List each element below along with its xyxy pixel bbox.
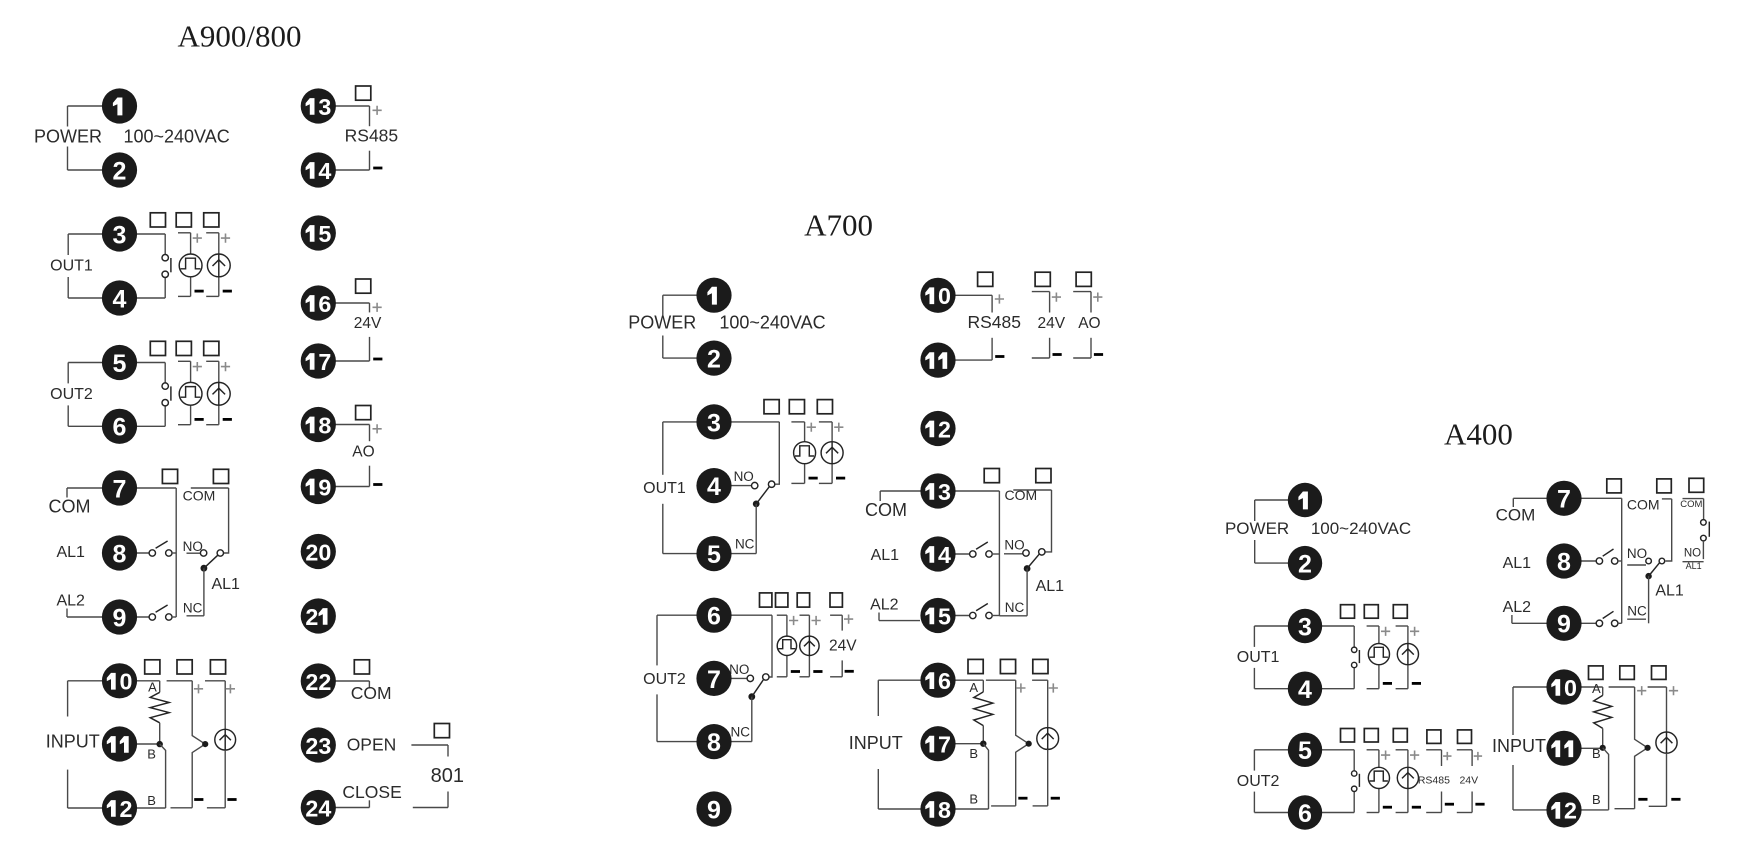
svg-text:B: B [1592,792,1601,807]
svg-text:B: B [969,746,978,761]
svg-text:A700: A700 [804,208,873,243]
svg-text:3: 3 [1298,613,1312,641]
svg-text:POWER: POWER [34,127,102,147]
svg-text:COM: COM [351,683,392,703]
svg-text:AL1: AL1 [1036,578,1065,595]
svg-text:7: 7 [1557,486,1571,514]
svg-text:3: 3 [113,221,127,249]
svg-text:7: 7 [318,349,331,375]
svg-text:3: 3 [318,94,331,120]
svg-text:7: 7 [938,732,951,758]
svg-text:3: 3 [707,409,721,437]
svg-text:5: 5 [707,541,721,569]
svg-text:7: 7 [113,475,127,503]
svg-text:COM: COM [865,500,907,520]
svg-text:9: 9 [707,796,721,824]
svg-text:5: 5 [318,221,331,247]
svg-text:AL1: AL1 [211,576,240,593]
svg-text:AL1: AL1 [1503,555,1532,572]
svg-text:INPUT: INPUT [1492,736,1546,756]
svg-text:OUT1: OUT1 [643,480,686,497]
svg-text:A: A [969,680,978,695]
svg-text:2: 2 [1298,551,1312,579]
svg-text:100~240VAC: 100~240VAC [1311,519,1411,538]
svg-text:9: 9 [1557,611,1571,639]
svg-text:NO: NO [1684,548,1701,560]
svg-text:A: A [1592,681,1601,696]
svg-text:COM: COM [49,497,91,517]
svg-text:24V: 24V [1459,774,1478,786]
svg-text:COM: COM [1627,496,1660,512]
svg-text:RS485: RS485 [1418,774,1450,786]
svg-text:6: 6 [113,414,127,442]
svg-text:2: 2 [318,669,331,695]
svg-text:AL1: AL1 [1686,561,1702,571]
svg-text:NO: NO [1004,538,1024,553]
svg-text:NO: NO [183,539,203,554]
svg-text:AL2: AL2 [1503,599,1532,616]
svg-text:NC: NC [183,601,203,616]
svg-text:2: 2 [305,604,318,630]
svg-text:INPUT: INPUT [849,733,903,753]
svg-text:AL2: AL2 [56,593,85,610]
svg-text:COM: COM [1496,506,1536,525]
svg-text:RS485: RS485 [345,126,399,146]
svg-text:A400: A400 [1444,417,1513,452]
svg-text:6: 6 [318,291,331,317]
svg-text:2: 2 [305,669,318,695]
svg-text:9: 9 [113,604,127,632]
svg-text:8: 8 [1557,548,1571,576]
svg-text:8: 8 [318,412,331,438]
svg-text:NO: NO [734,469,754,484]
svg-text:AL1: AL1 [56,544,85,561]
svg-text:OUT1: OUT1 [50,258,93,275]
svg-text:4: 4 [318,158,331,184]
svg-text:2: 2 [305,733,318,759]
svg-text:24V: 24V [354,315,382,332]
svg-text:INPUT: INPUT [46,732,100,752]
svg-text:5: 5 [113,350,127,378]
svg-text:24V: 24V [1038,315,1066,332]
svg-text:NO: NO [1627,546,1647,561]
svg-text:8: 8 [113,540,127,568]
svg-text:3: 3 [318,733,331,759]
svg-text:8: 8 [938,797,951,823]
svg-text:5: 5 [938,603,951,629]
svg-text:AL1: AL1 [1655,583,1684,600]
svg-text:AO: AO [1078,315,1100,332]
svg-text:7: 7 [707,666,721,694]
svg-text:CLOSE: CLOSE [342,782,401,802]
svg-text:COM: COM [183,487,216,503]
svg-text:6: 6 [1298,800,1312,828]
svg-text:B: B [147,793,156,808]
svg-text:OUT2: OUT2 [1237,773,1280,790]
svg-text:801: 801 [431,765,464,787]
svg-text:B: B [969,791,978,806]
svg-text:B: B [1592,746,1601,761]
svg-text:2: 2 [305,795,318,821]
svg-text:6: 6 [938,668,951,694]
svg-text:RS485: RS485 [967,312,1021,332]
svg-text:2: 2 [305,539,318,565]
svg-text:NC: NC [731,724,751,739]
svg-text:4: 4 [1298,676,1312,704]
svg-text:POWER: POWER [628,313,696,333]
svg-text:4: 4 [113,285,127,313]
svg-text:3: 3 [938,479,951,505]
svg-text:8: 8 [707,729,721,757]
svg-text:OUT2: OUT2 [643,671,686,688]
svg-text:AO: AO [352,444,374,461]
svg-text:5: 5 [1298,737,1312,765]
svg-text:NC: NC [735,536,755,551]
svg-text:OPEN: OPEN [347,735,397,755]
svg-text:6: 6 [707,603,721,631]
svg-text:COM: COM [1004,487,1037,503]
svg-text:2: 2 [707,346,721,374]
svg-text:24V: 24V [829,638,857,655]
svg-text:2: 2 [120,796,133,822]
svg-text:NC: NC [1627,604,1647,619]
svg-text:2: 2 [938,416,951,442]
svg-text:0: 0 [1564,675,1577,701]
svg-text:9: 9 [318,474,331,500]
svg-text:4: 4 [318,795,331,821]
svg-text:2: 2 [113,157,127,185]
svg-text:NO: NO [729,662,749,677]
svg-text:0: 0 [318,539,331,565]
svg-text:COM: COM [1680,499,1702,510]
svg-text:AL2: AL2 [870,597,899,614]
svg-text:100~240VAC: 100~240VAC [123,127,229,147]
svg-text:4: 4 [707,473,721,501]
svg-text:B: B [147,747,156,762]
svg-text:AL1: AL1 [871,547,900,564]
svg-text:100~240VAC: 100~240VAC [719,313,825,333]
svg-text:0: 0 [120,669,133,695]
svg-text:4: 4 [938,542,951,568]
svg-text:OUT2: OUT2 [50,386,93,403]
svg-text:0: 0 [938,283,951,309]
svg-text:OUT1: OUT1 [1237,649,1280,666]
svg-text:2: 2 [1564,798,1577,824]
svg-text:POWER: POWER [1225,519,1289,538]
svg-text:NC: NC [1005,600,1025,615]
svg-text:A900/800: A900/800 [178,19,302,54]
svg-text:A: A [148,679,157,694]
